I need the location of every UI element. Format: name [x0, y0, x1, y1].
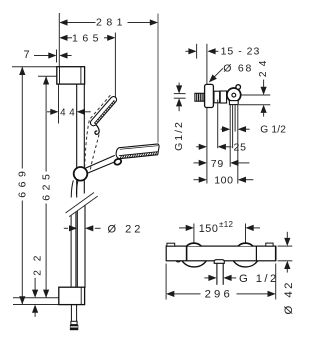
- outlet pipe: [216, 263, 218, 284]
- hand shower handle to head: [84, 155, 115, 168]
- dimension G1/2 outlet arrows: [221, 128, 223, 130]
- dimension 22 arrows: [32, 290, 38, 298]
- dimension G1/2 inlet ext lines: [174, 93, 186, 95]
- svg-text:150: 150: [199, 223, 219, 235]
- wire extension line left of 281/165 dims: [58, 13, 60, 66]
- outlet cap: [214, 260, 224, 264]
- svg-text:281: 281: [96, 16, 127, 28]
- wire extension top y669: [12, 66, 57, 68]
- svg-text:G 1/2: G 1/2: [260, 125, 286, 136]
- valve outlet foot: [229, 101, 238, 105]
- thread nipple G1/2 inlet: [195, 93, 205, 101]
- holder knob on bar: [74, 167, 88, 181]
- hand shower docked diagonal: [90, 97, 116, 126]
- wire outlet pipe lines below valve: [229, 105, 231, 167]
- svg-text:79: 79: [211, 158, 224, 170]
- wire extension top y625: [38, 75, 57, 77]
- valve nut block: [220, 91, 226, 103]
- svg-text:15 - 23: 15 - 23: [221, 46, 261, 58]
- right union bottom arc: [233, 261, 257, 267]
- slide bar upper segment: [76, 84, 78, 197]
- svg-text:4 4: 4 4: [60, 107, 75, 118]
- valve wall plate: [205, 84, 214, 107]
- dimension diameter 22 arrows: [69, 225, 77, 231]
- wall bracket bottom: [59, 287, 85, 304]
- dimension 281 left arrow: [59, 19, 67, 25]
- head inner top line: [120, 146, 158, 150]
- wire 25 extension line: [217, 100, 219, 149]
- docked shower spray face hatching: [94, 101, 115, 124]
- leader arrow diameter 68: [209, 74, 217, 82]
- hand shower hose lower segment: [70, 209, 72, 288]
- docked shower inner face line: [94, 100, 114, 123]
- dimension 22 lines: [34, 278, 36, 290]
- valve body inner circle: [232, 93, 236, 97]
- svg-text:100: 100: [214, 175, 233, 187]
- svg-text:2 2: 2 2: [32, 253, 43, 276]
- dimension 165 right arrow: [107, 35, 115, 41]
- right handle divider: [255, 246, 257, 261]
- dimension diameter 42 arrows: [284, 238, 290, 246]
- wire extension line 44 left: [58, 85, 60, 124]
- wire extension line 7mm left: [56, 50, 58, 63]
- dimension G1/2 bottom outlet: [204, 277, 208, 279]
- wire extension bottom y669: [13, 304, 59, 306]
- thermostat body: [166, 246, 276, 261]
- valve top ear: [236, 85, 241, 90]
- svg-text:2 4: 2 4: [258, 59, 269, 77]
- hand shower head horizontal: [116, 144, 159, 159]
- dimension 24 ext lines: [241, 94, 270, 96]
- hand shower hose upper segment: [71, 180, 73, 197]
- wire extension 15-23 left: [196, 44, 198, 59]
- svg-text:G1/2: G1/2: [173, 120, 185, 151]
- dimension 165 line: [67, 37, 72, 39]
- svg-text:296: 296: [205, 289, 233, 301]
- dimension 25: [196, 146, 199, 148]
- left handle divider: [186, 246, 188, 261]
- head inner line: [119, 152, 158, 156]
- dimension 669 line: [21, 67, 23, 169]
- svg-text:625: 625: [40, 170, 52, 201]
- svg-text:25: 25: [234, 141, 247, 153]
- dimension 165 left arrow: [59, 35, 67, 41]
- svg-text:669: 669: [17, 167, 29, 198]
- wall bracket top: [57, 67, 85, 84]
- dimension 281 right arrow: [150, 19, 158, 25]
- break symbol on bar: [66, 193, 98, 217]
- svg-text:7: 7: [23, 49, 29, 61]
- leader line diameter 68: [213, 68, 223, 78]
- docked shower handle curl: [95, 125, 99, 135]
- dimension 79: [194, 162, 199, 164]
- right handle top tab: [266, 243, 273, 246]
- dimension 669 arrows: [19, 67, 25, 75]
- dimension 296 line: [174, 293, 200, 295]
- dimension 625 line: [45, 76, 47, 171]
- dimension 15-23 arrows: [188, 48, 196, 54]
- svg-text:165: 165: [72, 33, 103, 45]
- dimension 15-23 tails: [185, 50, 188, 52]
- dimension 150 tails: [179, 227, 186, 229]
- dimension 296 arrows: [166, 291, 174, 297]
- wire extension line 281 right: [157, 14, 159, 143]
- dimension 100: [194, 179, 199, 181]
- left handle top tab: [167, 243, 175, 246]
- dimension diameter 42 ext lines: [278, 245, 293, 247]
- dimension diameter 22 tails: [64, 227, 68, 229]
- dimension 44 tails: [47, 111, 51, 113]
- svg-text:Ø 42: Ø 42: [283, 280, 295, 315]
- wire extension bottom y625: [13, 297, 59, 299]
- dimension G1/2 inlet arrows: [176, 85, 182, 93]
- head connector curl: [114, 158, 123, 166]
- svg-text:G 1/2: G 1/2: [239, 273, 279, 285]
- wire wall plane line upper: [206, 44, 208, 85]
- body right edge thick: [275, 246, 277, 261]
- hose nut: [70, 325, 78, 331]
- left handle bottom nub: [176, 261, 181, 262]
- left union top arc: [187, 243, 202, 246]
- wire extension line 165 right: [114, 33, 116, 98]
- hose nut collar: [71, 321, 77, 324]
- dimension 44 arrows: [50, 109, 58, 115]
- dimension 281 line: [67, 22, 95, 24]
- left union bottom arc: [182, 261, 206, 267]
- dimension 625 arrows: [43, 76, 49, 84]
- svg-text:Ø 22: Ø 22: [108, 223, 144, 235]
- dimension 7 tails: [34, 55, 49, 57]
- pivot dashed line 2: [90, 135, 99, 171]
- hose below bracket: [70, 305, 72, 322]
- wire wall plane line lower: [206, 108, 208, 184]
- valve connector fork: [214, 91, 220, 103]
- dimension 24 arrows: [261, 87, 267, 95]
- svg-text:±12: ±12: [219, 220, 233, 229]
- head spray face hatching: [120, 152, 157, 158]
- valve body circle: [227, 88, 241, 102]
- wire extension 150 left: [193, 224, 195, 243]
- pivot dashed line 1: [85, 95, 111, 166]
- svg-text:Ø 68: Ø 68: [223, 63, 253, 75]
- right union top arc: [238, 243, 253, 246]
- dimension 150 arrows: [186, 225, 194, 231]
- slide bar lower segment: [76, 205, 78, 288]
- wire extension 296 right: [275, 264, 277, 300]
- dimension 7 arrows: [48, 52, 56, 58]
- wire extension 296 left: [165, 264, 167, 300]
- wire extension 150 right: [245, 224, 247, 243]
